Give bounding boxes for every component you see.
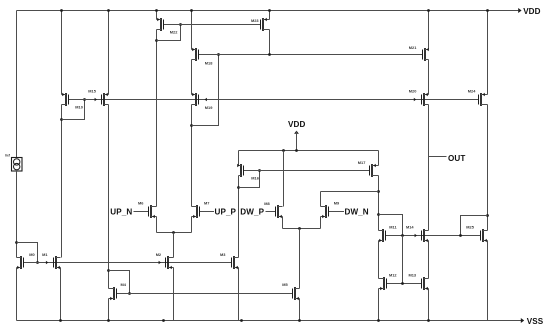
node M16 gate junction — [258, 169, 261, 172]
transistor M10 (pmos) — [62, 93, 69, 106]
node M19 drain tap — [190, 124, 193, 127]
transistor M15 (pmos) — [102, 93, 109, 106]
svg-text:DW_P: DW_P — [240, 208, 264, 217]
wire VDD top rail — [17, 10, 519, 12]
wire DW_P to M8 gate — [266, 211, 276, 213]
wire VDD to M21 source — [428, 11, 430, 50]
transistor M14 (nmos) — [422, 229, 429, 242]
svg-text:M3: M3 — [220, 252, 226, 257]
wire M23 drain down to gate line — [269, 30, 271, 55]
node M18 gate junction — [217, 53, 220, 56]
transistor M16 (pmos) — [237, 164, 243, 177]
node M17 drain / M9 junction — [377, 190, 380, 193]
node VDD rail x428 — [427, 9, 430, 12]
node M10 gate junction — [83, 98, 86, 101]
wire M8 source to tail — [282, 217, 284, 229]
node VDD rail x270 — [268, 9, 271, 12]
svg-text:M18: M18 — [205, 61, 213, 66]
svg-text:VDD: VDD — [523, 7, 540, 16]
wire nmos gate line M11-M25 — [386, 235, 481, 237]
svg-text:M4: M4 — [121, 282, 127, 287]
svg-text:M14: M14 — [406, 224, 414, 229]
VDD rail arrowhead — [518, 8, 521, 13]
wire VDD to M24 source — [487, 11, 489, 95]
svg-text:OUT: OUT — [448, 154, 465, 163]
wire VSS bottom rail — [17, 320, 522, 322]
node M17 drain / M11 gate junction — [377, 213, 380, 216]
wire M11 drain link — [379, 215, 403, 236]
wire M11 source to M12 drain — [378, 241, 380, 279]
gate arrow M15 — [95, 98, 97, 102]
wire M3 source to VSS — [238, 268, 240, 321]
transistor M2 (nmos) — [166, 256, 174, 269]
wire M4 source to VSS — [108, 299, 110, 321]
wire M9 source to tail — [320, 217, 322, 229]
node M4 gate junction — [128, 292, 131, 295]
wire M18-M21 gate line — [199, 54, 423, 56]
wire M19 drain to M7 drain — [191, 105, 193, 207]
svg-text:M23: M23 — [251, 18, 259, 23]
svg-text:M5: M5 — [282, 282, 288, 287]
transistor M12 (nmos) — [379, 277, 387, 290]
wire M12-M13 gate line — [387, 283, 422, 285]
wire VDD to M10 source — [61, 11, 63, 95]
wire nmos mirror2 gate bias line — [117, 293, 293, 295]
wire M0 source to VSS — [16, 268, 18, 321]
node VSS rail x300 — [298, 319, 301, 322]
node VDD rail x156 — [155, 9, 158, 12]
transistor M20 (pmos) — [422, 93, 429, 106]
transistor M23 (pmos) — [261, 18, 270, 31]
svg-text:M2: M2 — [156, 252, 162, 257]
wire M7 gate to UP_P — [200, 211, 215, 213]
svg-text:M25: M25 — [466, 224, 474, 229]
wire VDD to M23 source — [269, 11, 271, 20]
wire M22-M23 gate line — [164, 24, 261, 26]
wire diff pair1 tail — [157, 232, 192, 234]
svg-text:M7: M7 — [204, 201, 209, 206]
node VSS rail x378 — [377, 319, 380, 322]
svg-text:Iref: Iref — [5, 154, 11, 158]
wire M17 drain down — [378, 176, 380, 231]
node M25 drain tap — [486, 214, 489, 217]
wire M13 source to VSS — [428, 289, 430, 321]
transistor M17 (pmos) — [370, 164, 379, 177]
wire pmos mirror gate bias line — [69, 99, 479, 101]
node VDD rail x61 — [60, 9, 63, 12]
wire UP_N to M6 gate — [134, 211, 149, 213]
node M0 drain-gate tap — [15, 241, 18, 244]
node M22 drain tap — [155, 39, 158, 42]
wire M8 drain to inner VDD — [283, 151, 285, 207]
wire nmos mirror gate bias line — [24, 262, 232, 264]
wire OUT tick — [429, 156, 447, 158]
wire M1 source to VSS — [60, 268, 62, 321]
svg-text:M13: M13 — [409, 272, 417, 277]
node VDD rail x488 — [486, 9, 489, 12]
node tail1 junction — [172, 231, 175, 234]
svg-text:M6: M6 — [138, 201, 144, 206]
transistor M7 (nmos) — [192, 205, 200, 218]
wire M7 source to tail — [191, 217, 193, 233]
wire M0 diode loop — [17, 243, 38, 263]
svg-text:M11: M11 — [389, 224, 397, 229]
VSS rail arrowhead — [521, 318, 524, 323]
transistor M3 (nmos) — [232, 256, 239, 269]
gate arrow M1 — [46, 261, 48, 265]
wire inner VDD to M16 source — [238, 151, 240, 166]
transistor M18 (pmos) — [192, 48, 199, 61]
svg-text:M10: M10 — [75, 104, 83, 109]
transistor M13 (nmos) — [422, 277, 429, 290]
wire M9 drain to M17 drain — [321, 191, 379, 193]
transistor M19 (pmos) — [192, 93, 199, 106]
node M23 drain junction — [268, 53, 271, 56]
wire M9 drain link — [320, 192, 322, 207]
wire M21 drain to M20 source — [428, 60, 430, 95]
node VDD rail x191 — [190, 9, 193, 12]
svg-text:M21: M21 — [409, 45, 417, 50]
wire M19 drain to M18 gate link — [192, 55, 219, 126]
svg-text:M12: M12 — [389, 272, 397, 277]
transistor M24 (pmos) — [479, 93, 488, 106]
svg-text:M1: M1 — [42, 252, 48, 257]
wire VDD inner stem — [296, 132, 298, 151]
wire tail1 to M2 drain — [173, 233, 175, 258]
node M22 gate junction — [179, 23, 182, 26]
wire M25 source to VSS — [487, 241, 489, 321]
gate arrow M19 — [205, 98, 207, 102]
gate arrow M14 — [415, 234, 417, 238]
wire VDD to M22 source — [156, 11, 158, 20]
transistor M1 (nmos) — [54, 256, 61, 269]
svg-text:M9: M9 — [334, 200, 340, 205]
svg-text:M20: M20 — [409, 88, 417, 93]
VDD inner arrowhead — [294, 131, 299, 134]
wire M22 drain to M6 drain — [156, 30, 158, 207]
node tail2 junction — [298, 227, 301, 230]
wire inner VDD to M17 source — [378, 151, 380, 166]
svg-text:M0: M0 — [29, 252, 34, 257]
wire tail2 to M5 drain — [299, 229, 301, 289]
transistor M0 (nmos) — [17, 256, 24, 269]
svg-text:M19: M19 — [205, 105, 213, 110]
svg-text:M8: M8 — [264, 201, 270, 206]
wire M15 drain to M4 drain — [108, 105, 110, 289]
wire M24 drain to M25 drain — [487, 105, 489, 231]
node VDD rail x109 — [107, 9, 110, 12]
wire M10 drain to M1 drain — [61, 105, 63, 258]
node M11 gate link junction — [401, 234, 404, 237]
transistor M11 (nmos) — [379, 229, 386, 242]
wire M25 diode loop — [461, 216, 488, 236]
node M4 drain-gate tap — [107, 269, 110, 272]
wire VDD to M15 source — [108, 11, 110, 95]
wire M4 diode loop — [109, 271, 130, 294]
wire M9 gate to DW_N — [329, 211, 345, 213]
wire diff pair2 tail — [283, 228, 321, 230]
wire Iref column top — [16, 11, 18, 158]
svg-text:M24: M24 — [468, 88, 476, 93]
svg-text:M16: M16 — [251, 175, 259, 180]
gate arrow M20 — [414, 98, 416, 102]
node M12-M13 gate junction — [401, 282, 404, 285]
transistor M21 (pmos) — [423, 48, 429, 61]
wire M10 diode loop — [62, 100, 85, 120]
transistor M6 (nmos) — [149, 205, 157, 218]
transistor M9 (nmos) — [321, 205, 329, 218]
svg-text:M15: M15 — [88, 88, 96, 93]
transistor M4 (nmos) — [109, 287, 117, 300]
svg-text:UP_P: UP_P — [215, 208, 237, 217]
transistor M22 (pmos) — [157, 18, 164, 31]
svg-text:VSS: VSS — [527, 317, 544, 326]
node M0 gate junction — [36, 261, 39, 264]
svg-text:VDD: VDD — [288, 120, 305, 129]
svg-text:M22: M22 — [170, 29, 178, 34]
wire M5 source to VSS — [299, 299, 301, 321]
transistor M8 (nmos) — [276, 205, 283, 218]
wire M2 source to VSS — [173, 268, 175, 321]
node M16 drain tap — [237, 186, 240, 189]
gate arrow M2 — [159, 261, 161, 265]
transistor M25 (nmos) — [481, 229, 488, 242]
wire M18 drain to M19 source — [191, 60, 193, 95]
wire M16 diode loop — [239, 171, 260, 188]
wire M20 drain to M14 drain (OUT line) — [428, 105, 430, 231]
node VSS rail x241 — [240, 319, 243, 322]
node VSS rail x164 — [162, 319, 165, 322]
wire inner VDD horizontal line — [239, 150, 379, 152]
wire VDD to M18 source — [191, 11, 193, 50]
node VSS rail x109 — [107, 319, 110, 322]
svg-text:UP_N: UP_N — [110, 208, 132, 217]
transistor M5 (nmos) — [293, 287, 300, 300]
wire Iref column to M0 drain — [16, 171, 18, 258]
svg-text:DW_N: DW_N — [345, 208, 369, 217]
wire M6 source to tail — [156, 217, 158, 233]
wire M16-M17 gate line — [244, 170, 370, 172]
node VSS rail x61 — [59, 319, 62, 322]
wire M12 gate to M11 gate link — [402, 236, 404, 284]
node VSS rail x428 — [427, 319, 430, 322]
svg-text:M17: M17 — [358, 160, 366, 165]
node M10 drain tap — [60, 118, 63, 121]
node inner VDD M8 junction — [282, 149, 285, 152]
wire M14 source to M13 drain — [428, 241, 430, 279]
current source Iref — [12, 158, 23, 172]
wire M12 source to VSS — [378, 289, 380, 321]
node inner VDD stem junction — [295, 149, 298, 152]
node M25 gate junction — [459, 234, 462, 237]
wire M16 drain to M3 drain — [238, 176, 240, 258]
wire M22 diode loop — [157, 25, 181, 41]
